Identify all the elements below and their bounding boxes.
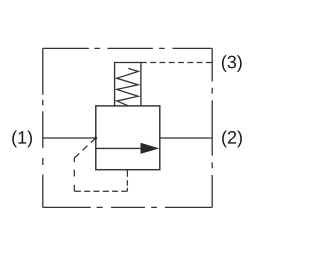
port line (1) xyxy=(43,137,96,139)
main valve body square xyxy=(96,106,160,170)
flow arrow head xyxy=(141,143,160,154)
flow arrow shaft xyxy=(96,147,142,149)
component envelope right edge xyxy=(211,48,213,207)
port label (2) xyxy=(222,131,242,148)
spring box xyxy=(115,63,141,106)
pilot line right vertical segment (dashed) xyxy=(126,170,128,192)
component envelope (dashed boundary) top edge xyxy=(43,47,212,49)
port label (3) xyxy=(222,55,242,72)
pilot line bottom horizontal segment (dashed) xyxy=(74,190,127,192)
port line (2) xyxy=(160,137,212,139)
junction node at port 1 xyxy=(94,137,97,140)
port label (1) xyxy=(12,131,32,148)
vent line (3) dashed xyxy=(141,62,212,64)
spring xyxy=(117,68,138,105)
component envelope bottom edge xyxy=(43,206,212,208)
pilot line diagonal segment (dashed) xyxy=(74,138,96,158)
pilot line left vertical segment (dashed) xyxy=(73,158,75,191)
component envelope left edge xyxy=(42,48,44,207)
